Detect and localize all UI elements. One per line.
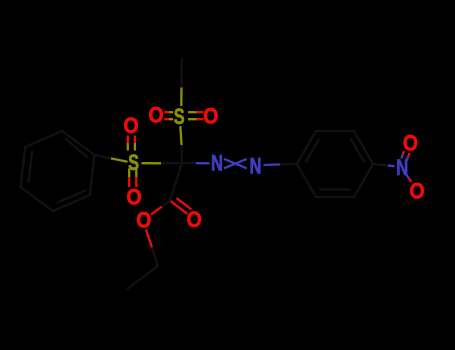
wire N2-ring (blue half): [264, 163, 281, 166]
svg-text:O: O: [148, 102, 163, 127]
benzene ring left (phenyl of phenylsulfonyl): [21, 131, 95, 211]
wire S2-Ccentral (olive half): [142, 162, 162, 164]
wire N2-ring (dark carbon half): [280, 163, 297, 166]
azo N=N crossed double bond: [224, 159, 247, 168]
ester C=O double bond: [171, 198, 192, 214]
wire S1-Ccentral (olive half): [180, 126, 181, 145]
S1=O1right double bond: [188, 112, 204, 119]
methyl CH3 top (dark carbon half): [180, 58, 182, 88]
wire phenyl-S (dark carbon half): [95, 155, 112, 158]
svg-text:N: N: [211, 150, 223, 175]
svg-text:O: O: [187, 207, 202, 232]
S1=O1left double bond: [164, 112, 173, 119]
wire CH2-CH3 ethyl tail: [127, 266, 158, 289]
wire O-CH2 (dark carbon half): [152, 248, 158, 267]
svg-text:O: O: [126, 185, 141, 210]
N3-O3bottom single bond: [406, 175, 411, 183]
svg-text:S: S: [174, 104, 185, 129]
svg-text:O: O: [203, 103, 218, 128]
wire S2-Ccentral (dark half to node C): [161, 162, 182, 165]
wire S1-Ccentral (dark half to node C): [180, 145, 183, 163]
node C central to azo N (dark carbon half): [182, 162, 196, 164]
wire O-CH2 (red oxygen half): [146, 230, 152, 248]
wire C-N1 (blue nitrogen half): [196, 162, 210, 164]
svg-text:O: O: [136, 207, 151, 232]
ester C-O single bond (red oxygen half): [151, 207, 162, 215]
wire phenyl-S (olive sulfur half): [111, 158, 128, 161]
N3=O3top double bond: [401, 151, 409, 161]
wire ring-N3 (dark carbon half): [373, 164, 388, 166]
svg-text:O: O: [409, 179, 424, 204]
svg-text:O: O: [123, 113, 138, 138]
svg-text:N: N: [250, 154, 262, 179]
methyl-S1 bond (olive half): [180, 88, 182, 107]
ester C-O single bond (dark carbon half): [162, 201, 170, 207]
wire Ccentral-Ccarbonyl: [170, 163, 182, 201]
S2=O2bottom double bond: [129, 169, 136, 188]
wire ring-N3 (blue half): [388, 164, 395, 167]
benzene ring right (4-nitrophenyl): [297, 131, 373, 197]
S2=O2top double bond: [128, 136, 135, 151]
